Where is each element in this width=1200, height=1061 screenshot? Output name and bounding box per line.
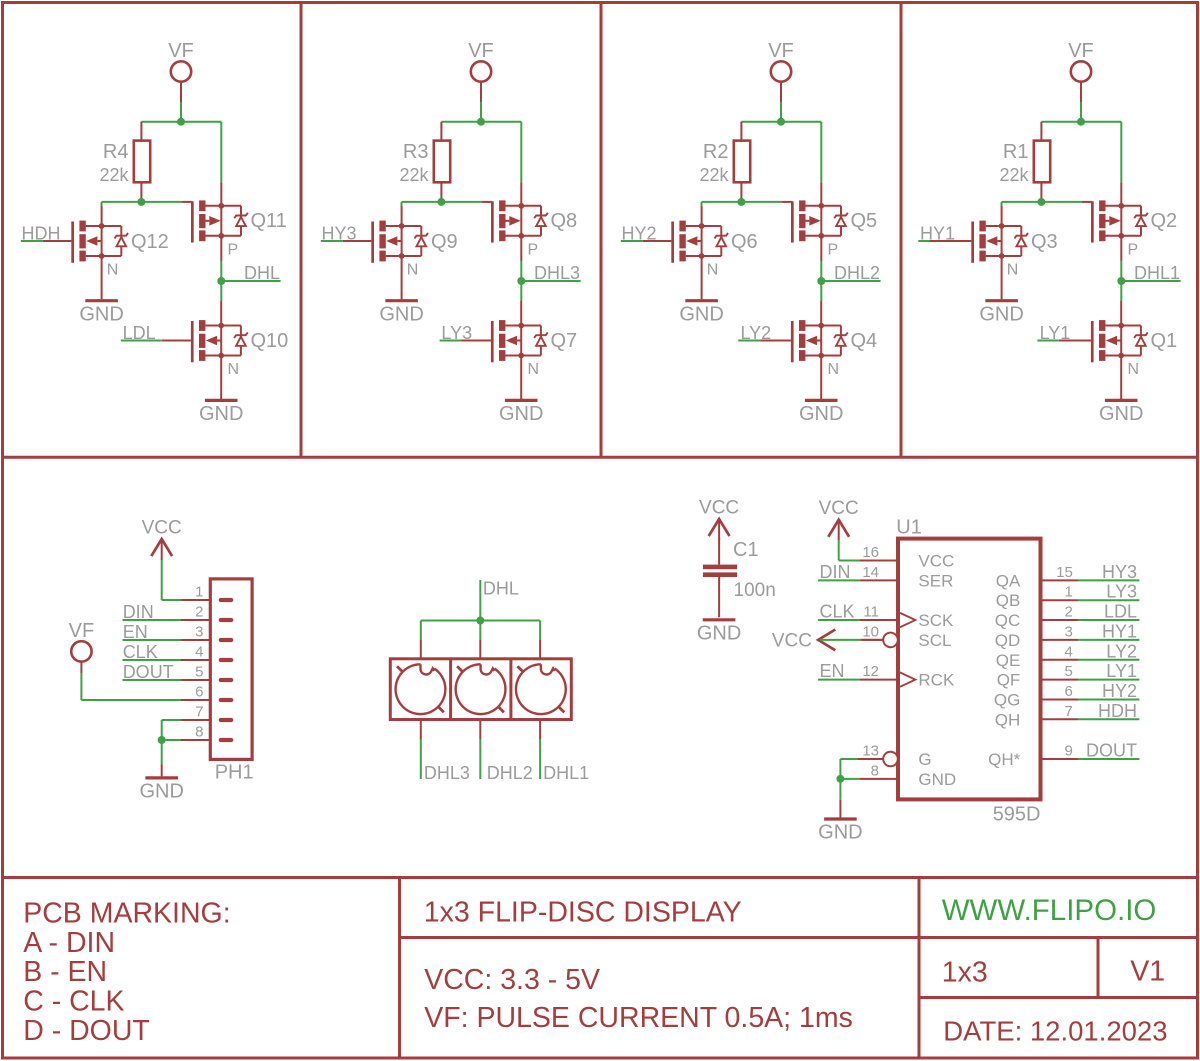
svg-text:DOUT: DOUT [1086,741,1137,761]
svg-text:WWW.FLIPO.IO: WWW.FLIPO.IO [942,894,1157,927]
svg-text:QE: QE [996,651,1021,670]
svg-text:SER: SER [918,571,953,590]
wire [741,121,821,123]
net LY2 (U1) [1078,641,1139,661]
svg-text:GND: GND [379,303,423,325]
svg-text:VCC: VCC [819,498,859,519]
svg-text:1x3: 1x3 [942,956,988,988]
svg-text:GND: GND [1099,403,1143,425]
wire [820,281,822,301]
svg-text:6: 6 [195,684,203,701]
supply VF (R3 cell) [468,40,494,102]
wire [161,740,163,765]
svg-text:22k: 22k [399,165,429,185]
net DHL1 [540,739,589,783]
svg-text:GND: GND [79,303,123,325]
wire [162,720,181,740]
svg-text:R4: R4 [103,141,129,163]
text VF spec [424,1002,853,1034]
svg-text:4: 4 [195,644,203,661]
svg-text:1: 1 [195,584,203,601]
svg-text:HY3: HY3 [322,224,357,244]
text A - DIN [23,927,115,959]
text date [943,1015,1167,1046]
ground [499,356,543,426]
svg-text:6: 6 [1064,683,1072,700]
net LY3 (U1) [1078,582,1139,602]
net LY1 (U1) [1078,661,1139,681]
net HDH [21,224,61,244]
svg-text:QD: QD [995,631,1021,650]
svg-text:B - EN: B - EN [23,956,107,988]
net DIN (U1) [818,562,860,582]
svg-text:22k: 22k [999,165,1029,185]
transistor Q9 [343,206,458,279]
connector PH1 [181,579,254,784]
svg-text:DHL3: DHL3 [424,763,470,783]
transistor Q12 [43,206,169,279]
transistor Q7 [461,301,577,378]
svg-text:U1: U1 [896,517,922,539]
supply VCC (U1 pin10) [772,630,835,652]
svg-text:5: 5 [1064,663,1072,680]
svg-text:GND: GND [499,403,543,425]
svg-text:VCC: 3.3 - 5V: VCC: 3.3 - 5V [424,964,600,996]
svg-text:3: 3 [1064,623,1072,640]
transistor Q5 [782,182,877,261]
svg-text:GND: GND [918,770,956,789]
svg-text:Q9: Q9 [431,231,458,253]
svg-text:DIN: DIN [820,562,851,582]
net CLK [123,642,182,662]
resistor R2 [699,122,750,202]
wire [162,560,181,600]
svg-text:GND: GND [799,403,843,425]
svg-text:VF: VF [768,40,794,62]
svg-text:12: 12 [862,663,879,680]
svg-text:VCC: VCC [699,498,739,519]
svg-text:SCL: SCL [918,631,951,650]
node VF rail [1077,118,1085,126]
svg-text:HY1: HY1 [1102,621,1137,641]
svg-text:DHL: DHL [244,263,280,283]
svg-text:HDH: HDH [22,224,61,244]
flip-disc display DISP1 [390,640,571,739]
ground [979,256,1023,325]
svg-text:Q12: Q12 [131,231,169,253]
wire [402,201,482,203]
svg-text:P: P [228,242,239,259]
net DHL2 [480,739,533,783]
node U1 gnd [836,775,844,783]
text version V1 [1130,956,1165,988]
wire [820,261,822,281]
svg-text:GND: GND [139,781,183,803]
wire [220,281,222,301]
wire [839,541,860,561]
ground [379,256,423,325]
svg-text:N: N [707,262,719,279]
resistor R3 [399,122,450,202]
svg-text:GND: GND [199,403,243,425]
svg-text:HY3: HY3 [1102,562,1137,582]
wire [1041,121,1121,123]
ground [139,765,183,803]
svg-text:SCK: SCK [918,611,954,630]
svg-text:VCC: VCC [772,630,812,651]
svg-text:LY2: LY2 [1106,641,1137,661]
supply VCC (PH1) [142,518,182,561]
wire [780,102,782,122]
wire [840,759,857,779]
wire [520,281,522,301]
svg-text:QF: QF [997,671,1021,690]
node DHL3 [517,277,525,285]
ground [199,356,243,426]
supply VCC (C1) [699,498,739,541]
svg-text:Q2: Q2 [1151,210,1178,232]
text B - EN [23,956,107,988]
net DIN [123,602,182,622]
net LY1 [1037,323,1070,343]
wire [220,122,222,183]
resistor R1 [999,122,1050,202]
svg-text:13: 13 [862,743,879,760]
svg-text:5: 5 [195,664,203,681]
svg-text:A - DIN: A - DIN [23,927,115,959]
wire [1001,202,1003,207]
svg-text:V1: V1 [1130,956,1165,988]
node VF rail [477,118,485,126]
wire [420,621,422,641]
svg-text:22k: 22k [699,165,729,185]
transistor Q11 [182,182,287,261]
svg-text:Q1: Q1 [1151,330,1178,352]
node DHL1 [1117,277,1125,285]
text size 1x3 [942,956,988,988]
net HY3 (U1) [1078,562,1139,582]
wire [702,201,782,203]
node gate rail [137,198,145,206]
net DOUT (U1) [1078,741,1139,761]
svg-text:1: 1 [1064,584,1072,601]
svg-text:EN: EN [820,661,845,681]
svg-text:QG: QG [994,690,1020,709]
net DOUT [123,662,182,682]
svg-text:15: 15 [1056,564,1073,581]
svg-text:10: 10 [862,623,879,640]
transistor Q2 [1082,182,1177,261]
svg-text:DHL: DHL [483,579,519,599]
wire [401,202,403,207]
svg-text:GND: GND [679,303,723,325]
svg-text:DIN: DIN [123,602,154,622]
wire [820,122,822,183]
ground [818,800,862,844]
node DHL [217,277,225,285]
wire [857,758,883,760]
frame divider vertical 1 [300,3,303,458]
text PCB MARKING [23,897,230,929]
net HY2 [621,224,657,244]
svg-text:LY3: LY3 [1106,582,1137,602]
net EN [123,622,182,642]
svg-text:DHL1: DHL1 [543,763,589,783]
svg-text:G: G [918,750,931,769]
svg-text:N: N [107,262,119,279]
svg-text:VCC: VCC [918,552,954,571]
svg-text:Q11: Q11 [251,210,287,232]
node DHL2 [817,277,825,285]
wire [701,202,703,207]
title block grid [3,878,1198,1059]
resistor R4 [99,122,150,202]
svg-text:DHL3: DHL3 [534,263,580,283]
svg-text:DHL1: DHL1 [1134,263,1180,283]
svg-text:R2: R2 [703,141,729,163]
transistor Q8 [482,182,577,261]
svg-text:N: N [407,262,419,279]
svg-text:Q3: Q3 [1031,231,1058,253]
svg-text:7: 7 [1064,703,1072,720]
wire [81,673,181,700]
transistor Q4 [760,301,877,378]
transistor Q3 [930,206,1058,279]
svg-text:16: 16 [862,544,879,561]
net DHL3 [421,739,470,783]
ground [697,620,741,645]
frame divider vertical 2 [600,3,603,458]
svg-text:GND: GND [979,303,1023,325]
svg-text:QH*: QH* [988,750,1021,769]
wire [101,202,103,207]
svg-text:Q4: Q4 [851,330,878,352]
svg-text:DOUT: DOUT [123,662,174,682]
net DHL (display) [480,579,519,621]
svg-text:C1: C1 [733,539,759,561]
svg-text:VCC: VCC [142,518,182,539]
wire [520,261,522,281]
svg-text:100n: 100n [734,580,776,601]
net LDL (U1) [1078,602,1139,622]
svg-text:LY1: LY1 [1106,661,1137,681]
ground [799,356,843,426]
svg-text:1x3 FLIP-DISC DISPLAY: 1x3 FLIP-DISC DISPLAY [424,897,742,929]
wire [441,121,521,123]
svg-text:C - CLK: C - CLK [23,986,124,1018]
net LY2 [738,323,771,343]
text website [942,894,1157,927]
svg-text:HY2: HY2 [622,224,657,244]
net DHL1 [1121,263,1180,283]
svg-text:GND: GND [818,822,862,844]
svg-text:HY2: HY2 [1102,681,1137,701]
svg-text:P: P [1128,242,1139,259]
wire [421,620,540,622]
net HY2 (U1) [1078,681,1139,701]
node PH1 gnd [158,736,166,744]
svg-text:DATE: 12.01.2023: DATE: 12.01.2023 [943,1015,1167,1046]
node display feed [476,617,484,625]
wire [1002,201,1082,203]
supply VF (PH1) [69,620,95,673]
wire [840,778,860,780]
svg-text:CLK: CLK [123,642,158,662]
svg-text:GND: GND [697,622,741,644]
wire [820,639,884,641]
svg-text:LY1: LY1 [1040,323,1071,343]
capacitor C1 [703,538,776,617]
net DHL3 [521,263,580,283]
wire [1080,102,1082,122]
node gate rail [737,198,745,206]
supply VF (R1 cell) [1068,40,1094,102]
ground [79,256,123,325]
transistor Q1 [1059,301,1177,378]
svg-text:595D: 595D [993,804,1041,826]
supply VF (R2 cell) [768,40,794,102]
svg-text:2: 2 [195,604,203,621]
node gate rail [437,198,445,206]
svg-text:LY3: LY3 [441,323,472,343]
net HY1 [918,224,955,244]
svg-text:2: 2 [1064,604,1072,621]
supply VCC (U1 pin16) [819,498,859,541]
svg-text:N: N [528,361,540,378]
svg-text:P: P [828,242,839,259]
frame divider horizontal [3,456,1198,459]
wire [839,779,841,800]
svg-text:HDH: HDH [1098,701,1137,721]
svg-text:D - DOUT: D - DOUT [23,1015,150,1047]
svg-text:Q10: Q10 [251,330,289,352]
transistor Q10 [162,301,288,378]
svg-text:VF: VF [468,40,494,62]
wire [1120,122,1122,183]
text D - DOUT [23,1015,150,1047]
supply VF (R4 cell) [168,40,194,102]
svg-text:Q7: Q7 [551,330,578,352]
svg-text:11: 11 [863,604,879,621]
svg-text:7: 7 [195,704,203,721]
svg-text:QA: QA [996,571,1021,590]
svg-text:9: 9 [1064,743,1072,760]
wire [480,102,482,122]
svg-text:VF: PULSE CURRENT 0.5A; 1ms: VF: PULSE CURRENT 0.5A; 1ms [424,1002,853,1034]
wire [1120,281,1122,301]
svg-text:QH: QH [995,710,1021,729]
svg-text:VF: VF [1068,40,1094,62]
svg-text:N: N [1128,361,1140,378]
svg-text:R1: R1 [1003,141,1029,163]
svg-text:22k: 22k [99,165,129,185]
svg-text:LDL: LDL [123,323,156,343]
wire [102,201,182,203]
svg-text:Q8: Q8 [551,210,578,232]
svg-text:DHL2: DHL2 [834,263,880,283]
wire [180,102,182,122]
net HDH (U1) [1078,701,1139,721]
wire [539,621,541,641]
net DHL [221,263,280,283]
svg-text:QC: QC [995,611,1021,630]
net HY1 (U1) [1078,621,1139,641]
net LDL [121,323,162,343]
svg-text:HY1: HY1 [920,224,955,244]
svg-text:VF: VF [69,620,95,642]
net HY3 [321,224,357,244]
svg-text:N: N [1007,262,1019,279]
svg-text:8: 8 [871,762,879,779]
svg-text:PCB MARKING:: PCB MARKING: [23,897,230,929]
svg-text:N: N [228,361,240,378]
svg-text:EN: EN [123,622,148,642]
svg-text:LDL: LDL [1104,602,1137,622]
net LY3 [440,323,473,343]
wire [520,122,522,183]
svg-text:Q6: Q6 [731,231,758,253]
wire [479,621,481,641]
IC U1 [860,517,1078,826]
svg-text:RCK: RCK [918,671,955,690]
svg-text:R3: R3 [403,141,429,163]
svg-text:8: 8 [195,724,203,741]
svg-text:LY2: LY2 [741,323,772,343]
node VF rail [777,118,785,126]
node VF rail [177,118,185,126]
svg-text:P: P [528,242,539,259]
svg-text:N: N [828,361,840,378]
svg-text:CLK: CLK [820,602,855,622]
transistor Q6 [643,206,758,279]
frame divider vertical 3 [900,3,903,458]
svg-text:Q5: Q5 [851,210,878,232]
text title [424,897,742,929]
svg-text:4: 4 [1064,643,1072,660]
ground [1099,356,1143,426]
svg-text:3: 3 [195,624,203,641]
net EN (U1) [818,661,860,681]
svg-text:14: 14 [862,564,879,581]
node gate rail [1037,198,1045,206]
ground [679,256,723,325]
svg-text:VF: VF [168,40,194,62]
svg-text:DHL2: DHL2 [487,763,533,783]
wire [1120,261,1122,281]
net DHL2 [821,263,880,283]
wire [220,261,222,281]
svg-text:PH1: PH1 [215,761,254,783]
text VCC spec [424,964,600,996]
text C - CLK [23,986,124,1018]
wire [162,739,181,741]
net CLK (U1) [818,602,860,622]
wire [141,121,221,123]
svg-text:QB: QB [996,591,1021,610]
